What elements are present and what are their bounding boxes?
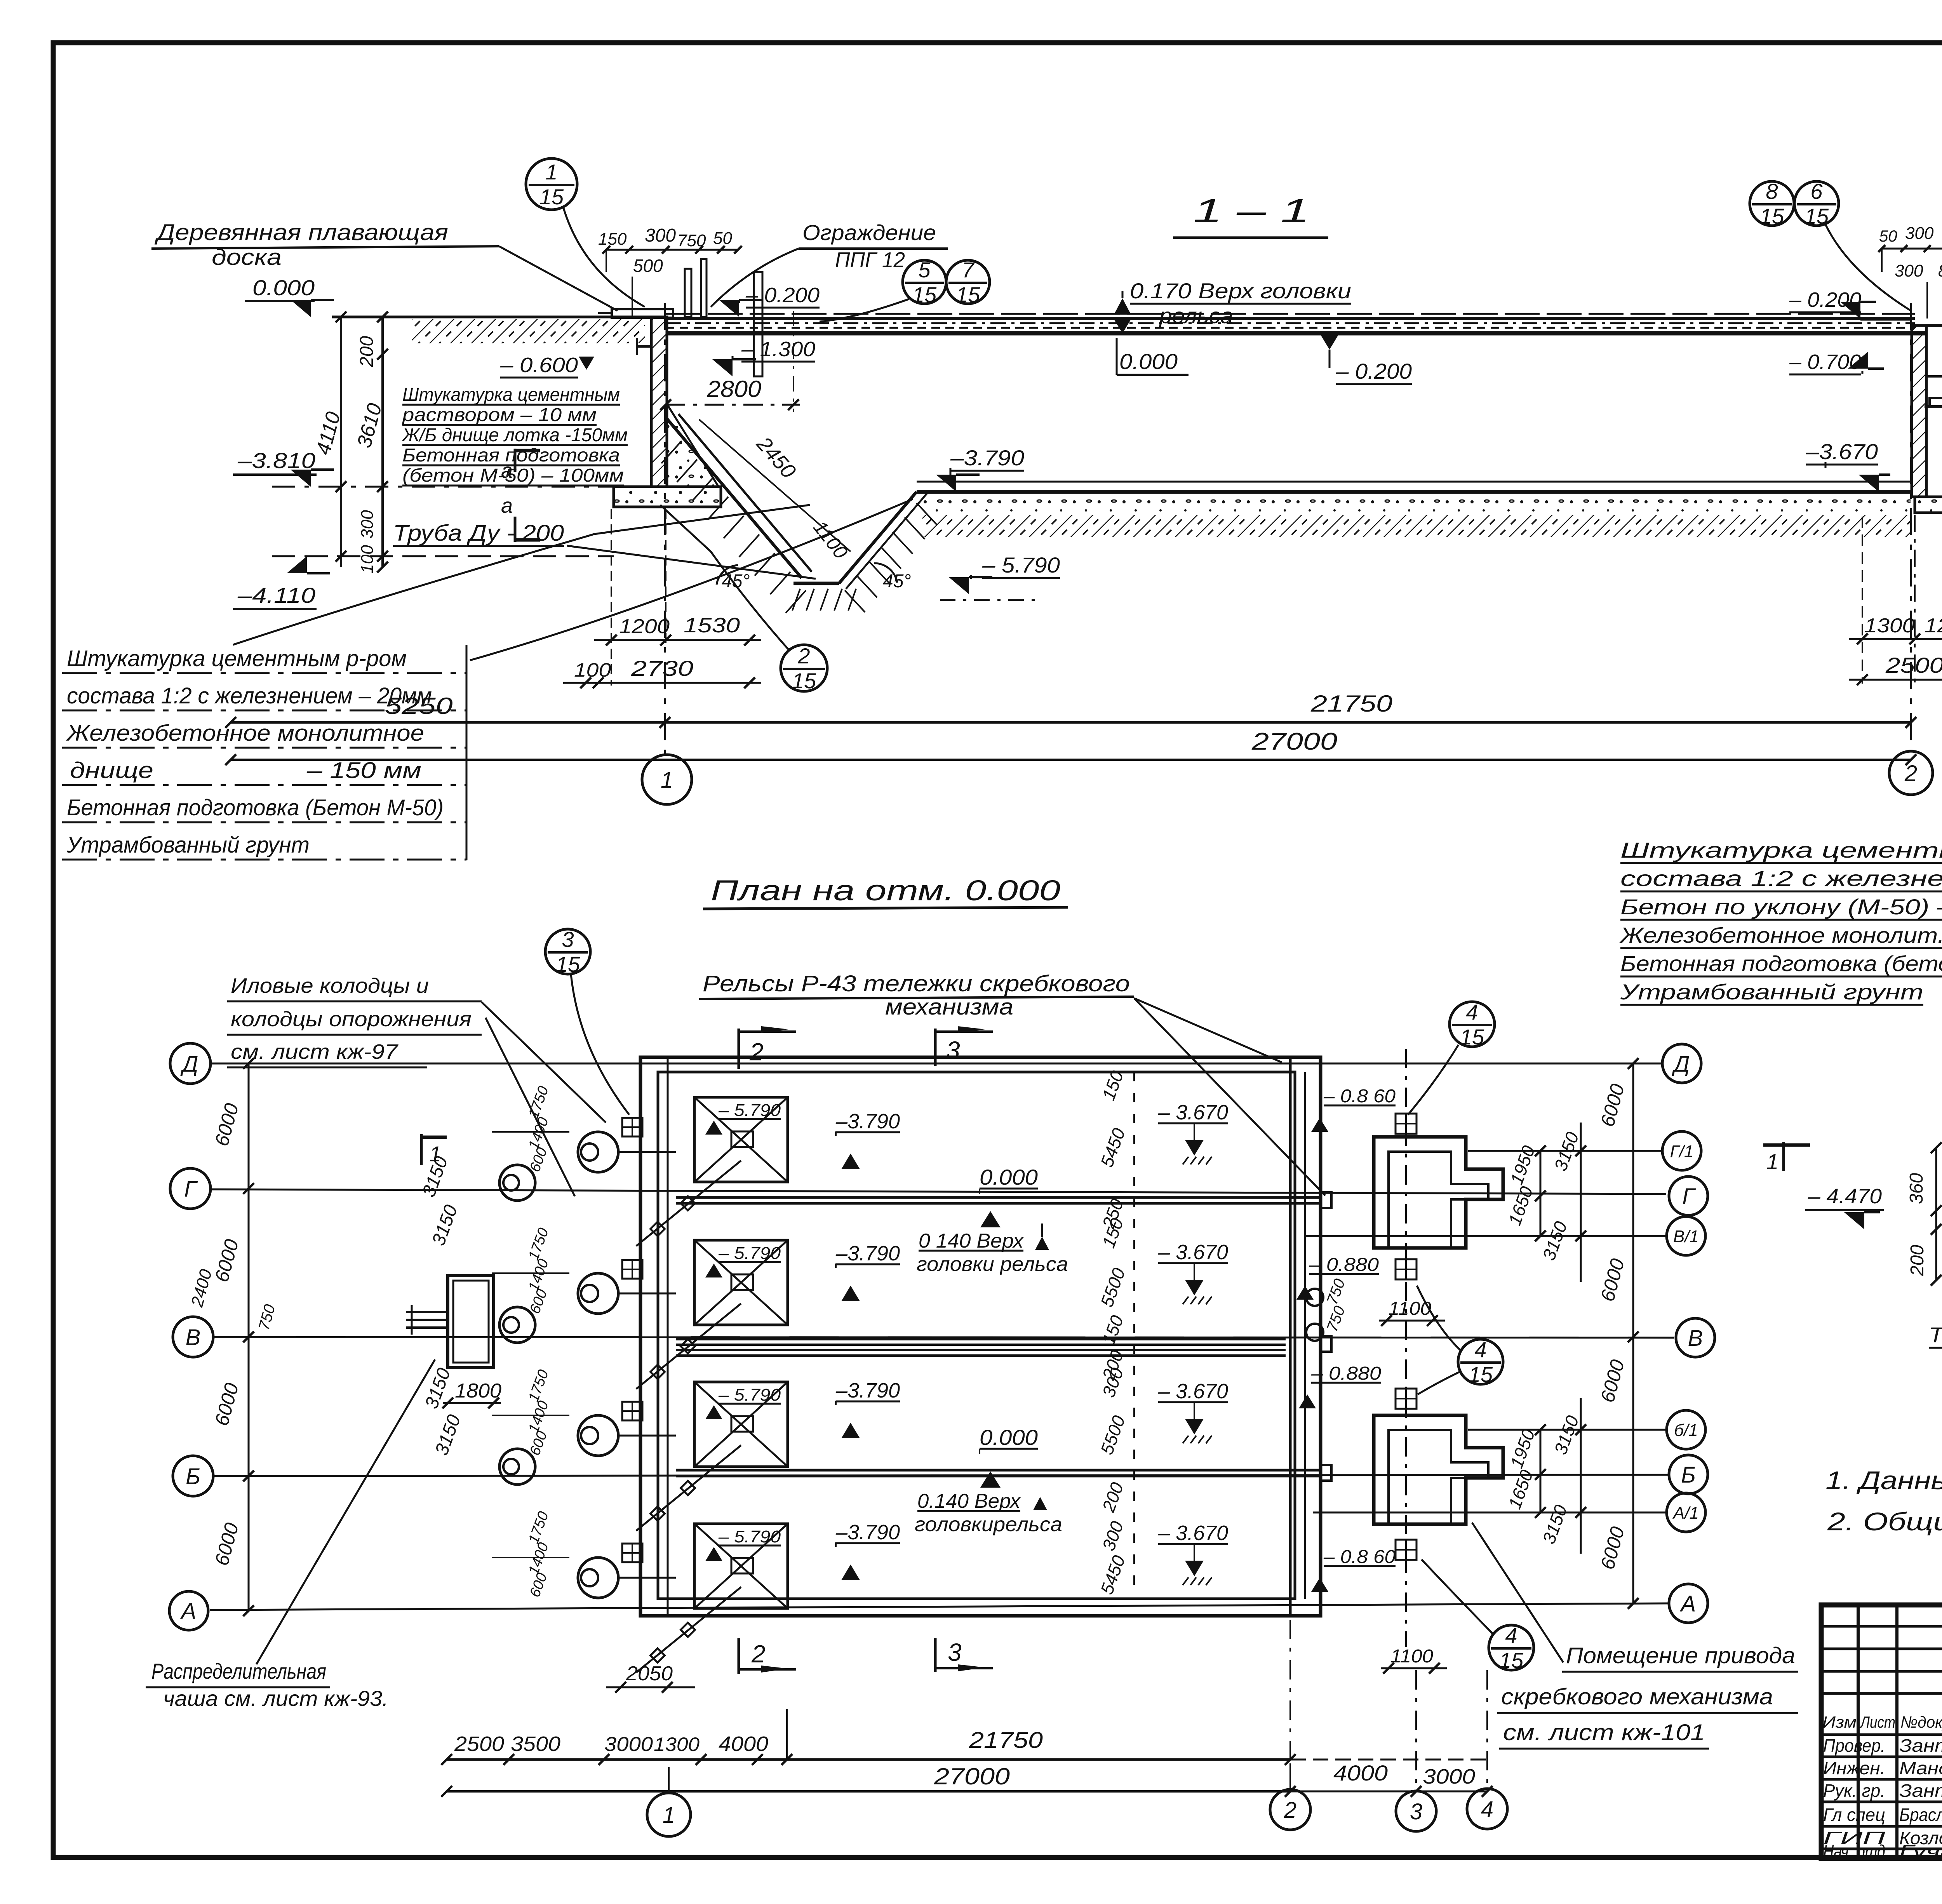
junction boxes right column	[1396, 1114, 1416, 1134]
svg-text:1750: 1750	[526, 1226, 552, 1262]
svg-text:750: 750	[256, 1303, 279, 1332]
svg-text:–3.790: –3.790	[835, 1242, 900, 1265]
svg-text:6000: 6000	[211, 1101, 243, 1148]
svg-text:Железобетонное монолитное: Железобетонное монолитное	[66, 721, 424, 746]
axis 2 dash line (section)	[1910, 303, 1912, 750]
right wall footing	[1915, 497, 1942, 513]
svg-text:50: 50	[1879, 227, 1897, 245]
svg-text:днище: днище	[70, 758, 153, 783]
svg-text:– 0.200: – 0.200	[745, 284, 820, 307]
svg-text:0.000: 0.000	[252, 275, 315, 300]
svg-text:15: 15	[1460, 1025, 1484, 1049]
machine room 1 (plan right)	[1374, 1137, 1503, 1248]
detail ref 4/15 bottom	[1489, 1625, 1534, 1670]
svg-text:750: 750	[1324, 1277, 1349, 1307]
pit under-hatch	[792, 589, 800, 611]
svg-text:6000: 6000	[1596, 1357, 1629, 1405]
svg-text:3150: 3150	[1538, 1218, 1571, 1263]
svg-text:150: 150	[1098, 1312, 1127, 1347]
svg-text:Инжен.: Инжен.	[1823, 1758, 1885, 1778]
svg-text:21750: 21750	[969, 1728, 1043, 1753]
level dash line -4.110 left	[272, 555, 614, 557]
svg-text:15: 15	[792, 668, 816, 693]
svg-text:3500: 3500	[511, 1732, 560, 1756]
svg-text:8: 8	[1766, 179, 1778, 204]
level dash line -3.810 left	[272, 486, 645, 488]
axis 1 dash line (section)	[664, 303, 666, 754]
svg-text:21750: 21750	[1310, 691, 1392, 717]
svg-text:– 0.600: – 0.600	[500, 353, 578, 377]
svg-text:4000: 4000	[719, 1732, 768, 1756]
svg-text:3: 3	[946, 1036, 960, 1064]
svg-text:3150: 3150	[431, 1412, 465, 1458]
svg-text:3: 3	[1410, 1799, 1422, 1824]
svg-text:Гучахчи: Гучахчи	[1899, 1841, 1942, 1861]
detail ref 4/15 top	[1450, 1002, 1495, 1047]
section 1-1 rail/ground lines (left of wall)	[332, 316, 651, 318]
top dim chain 150 300 750 50 over wall	[606, 249, 738, 251]
plan dim verticals mid	[1133, 1072, 1135, 1596]
svg-text:4: 4	[1481, 1797, 1493, 1822]
svg-text:В/1: В/1	[1673, 1227, 1699, 1246]
svg-text:Д: Д	[1672, 1051, 1690, 1077]
svg-text:1400: 1400	[526, 1257, 552, 1293]
axis circle 1 (plan)	[647, 1793, 691, 1836]
svg-text:– 5.790: – 5.790	[982, 553, 1060, 577]
axis lines horizontal (plan)	[210, 1063, 1662, 1065]
svg-text:6000: 6000	[211, 1380, 243, 1428]
svg-text:6000: 6000	[1596, 1256, 1629, 1304]
svg-text:Зантберг: Зантберг	[1899, 1735, 1942, 1756]
svg-text:– 0.8 60: – 0.8 60	[1323, 1547, 1396, 1567]
svg-text:1650: 1650	[1504, 1183, 1537, 1228]
svg-text:3000: 3000	[1423, 1765, 1475, 1788]
svg-text:1200: 1200	[1925, 614, 1942, 637]
svg-text:a: a	[501, 459, 513, 482]
svg-text:Г: Г	[1682, 1184, 1696, 1209]
svg-text:–3.790: –3.790	[950, 446, 1024, 470]
axis 2 dash line (plan)	[1289, 1620, 1291, 1763]
svg-text:– 1.300: – 1.300	[741, 338, 815, 361]
svg-text:15: 15	[912, 282, 937, 307]
svg-text:0.140 Верх: 0.140 Верх	[917, 1490, 1021, 1512]
machine room 2 (plan right)	[1374, 1415, 1503, 1524]
plan bottom dim 27000	[447, 1790, 1290, 1793]
svg-text:Штукатурка цементным р-ром: Штукатурка цементным р-ром	[67, 646, 407, 671]
right wall top slab to the left	[1860, 317, 1912, 321]
svg-text:100: 100	[574, 659, 611, 681]
title block left table verticals	[1857, 1605, 1860, 1859]
ground hatch below floor slab	[922, 515, 1911, 537]
floor concrete band with dots	[922, 495, 1911, 515]
dim lines machine rooms	[1540, 1151, 1542, 1236]
sludge pit boxes -5.790 (plan)	[694, 1097, 788, 1182]
plan right wall double line	[1289, 1057, 1292, 1616]
floor slab line right of pit	[917, 490, 1912, 494]
svg-text:4: 4	[1505, 1623, 1517, 1648]
svg-text:2400: 2400	[187, 1267, 216, 1309]
plan rail pair row 1	[676, 1196, 1321, 1199]
svg-text:2: 2	[1284, 1798, 1296, 1823]
svg-text:2: 2	[1904, 761, 1917, 786]
well connection lines	[492, 1131, 569, 1133]
detail refs 5/15 and 7/15	[903, 260, 946, 304]
svg-text:Штукатурка цементным: Штукатурка цементным	[402, 385, 620, 405]
svg-text:Провер.: Провер.	[1823, 1735, 1885, 1756]
leader from text block to slab	[470, 499, 913, 660]
svg-text:1300: 1300	[654, 1733, 700, 1755]
bottom dim line 27000 (section)	[231, 759, 1911, 761]
svg-text:3150: 3150	[428, 1202, 461, 1248]
svg-text:1400: 1400	[526, 1540, 552, 1577]
small circles right wall	[1306, 1289, 1323, 1306]
svg-text:1: 1	[1766, 1149, 1778, 1174]
svg-text:150: 150	[598, 230, 627, 249]
floor slab top line	[917, 481, 1912, 483]
svg-text:Г: Г	[184, 1177, 198, 1202]
svg-text:1750: 1750	[526, 1368, 552, 1404]
svg-text:6000: 6000	[1596, 1524, 1629, 1572]
svg-text:6000: 6000	[211, 1520, 243, 1568]
svg-text:(бетон М-50) – 100мм: (бетон М-50) – 100мм	[402, 465, 624, 486]
axis 1 vertical (plan)	[786, 1709, 788, 1760]
svg-text:5500: 5500	[1096, 1265, 1129, 1309]
svg-text:27000: 27000	[934, 1763, 1010, 1789]
svg-text:–3.670: –3.670	[1806, 439, 1878, 464]
svg-text:1100: 1100	[1390, 1646, 1433, 1667]
svg-text:2. Общие примечания см.: 2. Общие примечания см. лист кж-4.	[1827, 1507, 1942, 1536]
svg-text:15: 15	[1469, 1362, 1493, 1387]
lotok between walls	[1930, 398, 1942, 407]
svg-text:доска: доска	[212, 245, 282, 270]
svg-text:200: 200	[1907, 1245, 1928, 1276]
left wall cap / floating board	[612, 309, 673, 318]
axis circles right	[1662, 1044, 1701, 1083]
svg-text:состава 1:2 с железнением: состава 1:2 с железнением – 10мм	[1620, 866, 1942, 891]
fence post A	[685, 269, 691, 317]
svg-text:Деревянная плавающая: Деревянная плавающая	[154, 220, 448, 245]
leader to machine room 2	[1472, 1523, 1563, 1662]
svg-text:1 – 1: 1 – 1	[1193, 192, 1310, 230]
svg-text:6000: 6000	[211, 1237, 243, 1284]
svg-text:3610: 3610	[353, 401, 386, 450]
svg-text:4000: 4000	[1333, 1761, 1388, 1785]
svg-text:2: 2	[749, 1038, 764, 1066]
fence post C (goes below ground)	[754, 272, 762, 376]
sloped wall to pit (double line)	[667, 419, 802, 578]
svg-text:2: 2	[797, 644, 810, 668]
plan bottom dims 4000 3000 right	[1290, 1759, 1487, 1761]
right dim vertical line (plan)	[1632, 1063, 1634, 1603]
svg-text:головки рельса: головки рельса	[917, 1253, 1068, 1276]
svg-text:2500: 2500	[1885, 653, 1942, 677]
svg-text:Зантберг: Зантберг	[1899, 1780, 1942, 1801]
svg-text:1950: 1950	[1506, 1426, 1539, 1471]
left vertical dim line	[340, 317, 342, 567]
section 1-1 ground line right of wall	[1926, 324, 1942, 327]
detail ref 2/15	[781, 645, 827, 691]
distribution chamber (plan)	[448, 1276, 494, 1368]
wall footing (left)	[614, 487, 721, 507]
svg-text:300: 300	[645, 225, 676, 246]
svg-text:Мандрыка: Мандрыка	[1899, 1758, 1942, 1778]
svg-text:3000: 3000	[604, 1733, 653, 1756]
svg-text:5450: 5450	[1096, 1552, 1129, 1597]
svg-text:А: А	[1680, 1591, 1696, 1617]
axis sub lines right	[1468, 1150, 1662, 1152]
svg-text:Иловые колодцы и: Иловые колодцы и	[231, 974, 429, 997]
leader рельсы to rails	[1134, 998, 1325, 1196]
svg-text:скребкового механизма: скребкового механизма	[1501, 1684, 1773, 1709]
svg-text:500: 500	[633, 256, 663, 276]
svg-text:– 0.8 60: – 0.8 60	[1323, 1086, 1396, 1107]
leader Распределительная чаша	[256, 1359, 435, 1664]
svg-text:см. лист кж-101: см. лист кж-101	[1503, 1720, 1705, 1745]
detail ref 4/15 middle	[1458, 1339, 1503, 1384]
svg-text:7: 7	[962, 258, 974, 282]
svg-text:Утрамбованный грунт: Утрамбованный грунт	[1620, 980, 1923, 1004]
svg-text:4: 4	[1474, 1337, 1486, 1362]
svg-text:0 140 Верх: 0 140 Верх	[919, 1230, 1024, 1252]
svg-text:5450: 5450	[1096, 1125, 1129, 1170]
svg-text:Лист: Лист	[1860, 1713, 1895, 1731]
svg-text:Нач. отд: Нач. отд	[1823, 1841, 1885, 1861]
svg-text:1750: 1750	[526, 1084, 552, 1121]
svg-text:750: 750	[1324, 1304, 1349, 1334]
svg-text:–4.110: –4.110	[237, 583, 315, 607]
svg-text:–3.790: –3.790	[835, 1379, 900, 1402]
svg-text:раствором – 10 мм: раствором – 10 мм	[402, 405, 597, 425]
svg-text:1750: 1750	[526, 1509, 552, 1546]
svg-text:15: 15	[1499, 1648, 1524, 1673]
svg-text:–3.790: –3.790	[835, 1521, 900, 1544]
svg-text:ППГ 12: ППГ 12	[835, 247, 905, 272]
svg-text:5: 5	[918, 258, 931, 282]
svg-text:Гл спец: Гл спец	[1823, 1805, 1885, 1825]
plan middle partition band	[676, 1338, 1286, 1340]
dim lines left (по а-а)	[1935, 1148, 1937, 1280]
detail ref 1/15	[526, 158, 577, 210]
svg-text:1950: 1950	[1506, 1143, 1539, 1187]
svg-text:1400: 1400	[526, 1115, 552, 1152]
svg-text:Изм: Изм	[1822, 1713, 1857, 1731]
svg-text:Бетонная подготовка (Бетон М-5: Бетонная подготовка (Бетон М-50)	[67, 795, 444, 820]
svg-text:0.000: 0.000	[980, 1425, 1038, 1450]
svg-text:1650: 1650	[1504, 1467, 1537, 1511]
bracket -0.600 on wall	[637, 345, 651, 348]
leader from доска to wall top	[499, 246, 618, 311]
axis dash vertical through boxes	[1405, 1049, 1407, 1647]
svg-text:–3.810: –3.810	[237, 448, 315, 473]
svg-text:0.000: 0.000	[980, 1165, 1038, 1189]
svg-text:2450: 2450	[752, 432, 800, 483]
title block left table horizontals	[1821, 1625, 1942, 1628]
svg-text:– 0.880: – 0.880	[1311, 1363, 1381, 1384]
svg-text:головкирельса: головкирельса	[915, 1513, 1062, 1536]
svg-text:3: 3	[948, 1638, 962, 1666]
svg-text:Рук. гр.: Рук. гр.	[1823, 1780, 1885, 1801]
svg-text:Браславской: Браславской	[1899, 1805, 1942, 1825]
svg-text:1800: 1800	[455, 1380, 501, 1402]
axis circles left	[170, 1043, 211, 1084]
svg-text:1: 1	[663, 1803, 675, 1828]
svg-text:300: 300	[1905, 224, 1934, 243]
svg-text:А/1: А/1	[1672, 1504, 1699, 1523]
svg-text:см. лист кж-97: см. лист кж-97	[231, 1040, 398, 1063]
svg-text:– 5.790: – 5.790	[718, 1101, 781, 1120]
elevation -0.200 mid (arrow up)	[1321, 335, 1338, 350]
left wall (hatched concrete)	[651, 317, 667, 487]
svg-text:2500: 2500	[454, 1732, 504, 1756]
section 1-1 rail band between axis 1 and 2	[666, 313, 1915, 315]
svg-text:колодцы опорожнения: колодцы опорожнения	[231, 1008, 472, 1031]
right wall (hatched)	[1912, 325, 1926, 497]
svg-text:Труба Ду - 200: Труба Ду - 200	[393, 520, 564, 546]
svg-text:–3.790: –3.790	[835, 1110, 900, 1133]
bottom dim line 5250 / 21750	[231, 721, 1911, 724]
section cut marks 2 and 3 bottom	[738, 1638, 740, 1674]
svg-text:Распределительная: Распределительная	[151, 1659, 326, 1683]
svg-text:В: В	[186, 1325, 201, 1350]
title block outer frame	[1821, 1605, 1942, 1859]
svg-text:Д: Д	[180, 1051, 198, 1077]
axis circle 1 (section)	[642, 755, 692, 804]
section cut a-a marks	[514, 449, 517, 472]
left concrete wedge at wall base	[667, 404, 719, 487]
svg-text:2730: 2730	[631, 656, 693, 680]
axis circle 2 (plan)	[1270, 1789, 1310, 1830]
leader from Ограждение to fence	[711, 249, 799, 307]
fence post B	[701, 259, 706, 317]
pit right slope ground ticks	[845, 590, 865, 612]
svg-text:360: 360	[1906, 1173, 1927, 1204]
svg-text:6: 6	[1810, 179, 1823, 204]
svg-text:– 150 мм: – 150 мм	[306, 758, 421, 783]
pipes into chamber	[406, 1311, 448, 1313]
svg-text:План на отм. 0.000: План на отм. 0.000	[711, 874, 1060, 907]
plan tank outline outer	[640, 1057, 1321, 1616]
svg-text:750: 750	[677, 231, 706, 250]
svg-text:2050: 2050	[626, 1662, 673, 1685]
svg-text:Б: Б	[186, 1464, 200, 1489]
svg-text:a: a	[501, 494, 513, 517]
svg-text:б/1: б/1	[1674, 1421, 1698, 1440]
svg-text:состава 1:2 с железнением – 2: состава 1:2 с железнением – 20мм	[67, 683, 432, 708]
svg-text:Железобетонное монолит. днище: Железобетонное монолит. днище – 150 мм	[1619, 923, 1942, 947]
svg-text:– 0.200: – 0.200	[1336, 359, 1412, 383]
double arrow 0.170	[1114, 298, 1131, 315]
svg-text:1: 1	[545, 160, 557, 184]
svg-text:– 3.670: – 3.670	[1158, 1380, 1228, 1403]
svg-text:1200: 1200	[619, 615, 670, 638]
svg-text:– 3.670: – 3.670	[1158, 1241, 1228, 1264]
leader from колодцы to boxes	[482, 1002, 606, 1123]
svg-text:1. Данный лист комплектен: 1. Данный лист комплектен с листами кж-4…	[1825, 1466, 1942, 1495]
pit right slope	[839, 492, 917, 583]
svg-text:№документа: №документа	[1900, 1713, 1942, 1731]
svg-text:Бетонная подготовка (бетон М-: Бетонная подготовка (бетон М-50) – 100 м…	[1620, 951, 1942, 976]
svg-text:2800: 2800	[706, 376, 761, 402]
svg-text:– 4.470: – 4.470	[1808, 1185, 1882, 1208]
svg-text:0.170 Верх головки: 0.170 Верх головки	[1130, 278, 1351, 303]
svg-text:50: 50	[713, 229, 732, 248]
section cut 1 mark right (plan)	[1782, 1142, 1785, 1171]
svg-text:15: 15	[556, 952, 580, 976]
svg-text:Помещение привода: Помещение привода	[1566, 1643, 1795, 1668]
svg-text:чаша см. лист кж-93.: чаша см. лист кж-93.	[163, 1686, 388, 1711]
section cut marks 2 and 3 top	[738, 1029, 740, 1069]
svg-text:3: 3	[562, 927, 574, 952]
svg-text:300: 300	[358, 510, 377, 539]
svg-text:– 3.670: – 3.670	[1158, 1521, 1228, 1545]
svg-text:100: 100	[358, 545, 377, 574]
svg-text:15: 15	[956, 282, 980, 307]
svg-text:1300: 1300	[1864, 614, 1915, 637]
svg-text:200: 200	[1098, 1479, 1128, 1515]
plan bottom dims 2500 3500 3000 1300 4000	[447, 1758, 1290, 1761]
svg-text:– 0.700: – 0.700	[1789, 350, 1861, 374]
svg-text:200: 200	[357, 336, 377, 367]
detail refs 8/15 6/15 right	[1750, 181, 1794, 226]
svg-text:– 5.790: – 5.790	[718, 1385, 781, 1405]
svg-text:– 5.790: – 5.790	[718, 1244, 781, 1263]
pit left slope ground ticks	[661, 441, 682, 463]
svg-text:800: 800	[1938, 261, 1942, 280]
axis circle 3 (plan)	[1396, 1791, 1436, 1831]
svg-text:Б: Б	[1681, 1462, 1696, 1488]
svg-text:1: 1	[661, 768, 673, 793]
svg-text:1400: 1400	[526, 1399, 552, 1435]
svg-text:Труба Ду - 200: Труба Ду - 200	[1929, 1323, 1942, 1347]
svg-text:Штукатурка цементным р: Штукатурка цементным р -ром	[1620, 838, 1942, 862]
svg-text:А: А	[180, 1599, 197, 1624]
top dims 50 300 150 right wall	[1882, 248, 1942, 250]
left dim vertical line (plan)	[248, 1063, 250, 1611]
svg-text:0.000: 0.000	[1119, 349, 1178, 374]
svg-text:15: 15	[539, 184, 564, 209]
plan left inner wall line	[667, 1057, 669, 1616]
svg-text:рельса: рельса	[1159, 303, 1233, 328]
svg-text:Рельсы Р-43 тележки скре: Рельсы Р-43 тележки скребкового	[703, 971, 1130, 996]
section cut 1 mark left (plan)	[420, 1134, 423, 1165]
svg-text:Ограждение: Ограждение	[802, 220, 936, 245]
svg-text:механизма: механизма	[885, 994, 1013, 1020]
svg-text:3150: 3150	[421, 1365, 454, 1411]
detail ref 3/15 (plan)	[545, 929, 590, 974]
svg-text:Ж/Б днище лотка -150мм: Ж/Б днище лотка -150мм	[402, 425, 628, 446]
small junction boxes column (plan left)	[622, 1118, 642, 1136]
svg-text:1530: 1530	[684, 614, 740, 637]
svg-text:– 0.880: – 0.880	[1309, 1255, 1379, 1275]
svg-text:300: 300	[1895, 261, 1923, 280]
axis circle 2 (section)	[1889, 751, 1933, 795]
svg-text:Бетон по уклону (М-50) – 10: Бетон по уклону (М-50) – 10 – 130 мм	[1620, 895, 1942, 919]
svg-text:– 3.670: – 3.670	[1158, 1101, 1228, 1124]
svg-text:2: 2	[751, 1640, 766, 1668]
svg-text:5500: 5500	[1096, 1413, 1129, 1457]
svg-text:27000: 27000	[1251, 728, 1337, 755]
svg-text:15: 15	[1760, 204, 1784, 228]
svg-text:Утрамбованный грунт: Утрамбованный грунт	[66, 832, 310, 858]
axis circle 4 (plan)	[1467, 1789, 1507, 1829]
svg-text:3150: 3150	[1550, 1413, 1583, 1457]
pit bottom flat	[794, 582, 839, 585]
svg-text:Г/1: Г/1	[1670, 1142, 1694, 1161]
svg-text:6000: 6000	[1596, 1081, 1629, 1129]
left circles column (wells)	[499, 1165, 535, 1201]
svg-text:1: 1	[429, 1142, 441, 1166]
svg-text:300: 300	[1098, 1518, 1127, 1553]
